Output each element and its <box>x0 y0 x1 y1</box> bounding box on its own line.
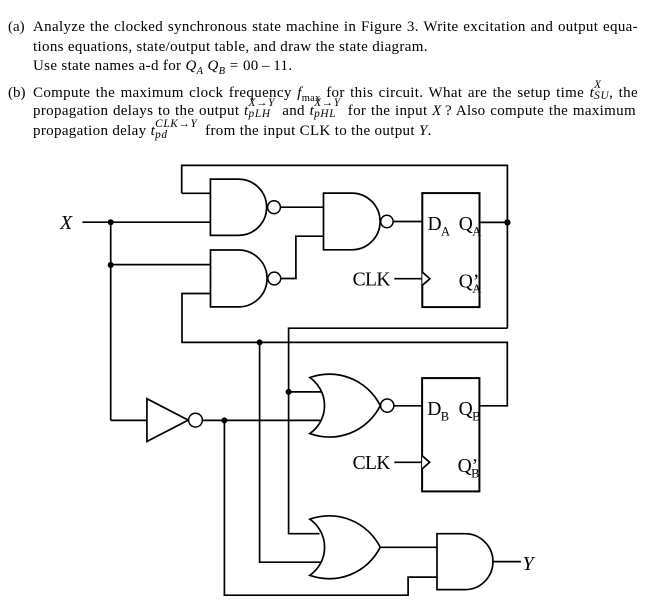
node X junction 1 <box>108 219 114 225</box>
svg-text:Q: Q <box>459 399 473 420</box>
svg-text:B: B <box>472 410 480 424</box>
wire top rail into NAND U1 top input <box>182 192 211 194</box>
nand U3 <box>324 193 381 250</box>
node inverter out junction <box>221 417 227 423</box>
svg-text:A: A <box>472 225 481 239</box>
svg-text:X: X <box>59 212 73 234</box>
svg-text:A: A <box>441 225 450 239</box>
wire X to NAND U1 bottom input <box>111 221 211 223</box>
node X junction 2 <box>108 262 114 268</box>
wire U3 out to DA <box>394 221 423 223</box>
wire X to inverter input <box>111 419 147 421</box>
wire inverter out to NOR bottom input <box>202 419 321 421</box>
wire junction to NOR top input <box>289 391 321 393</box>
clock triangle A <box>422 272 430 285</box>
wire QA output <box>480 221 508 223</box>
node rail2 junction <box>257 339 263 345</box>
nand U1 <box>210 179 266 235</box>
nand U1 output bubble <box>268 201 281 214</box>
nand U2 output bubble <box>268 272 281 285</box>
svg-text:CLK: CLK <box>353 270 391 291</box>
svg-text:Q: Q <box>459 214 473 235</box>
nand U2 <box>211 250 268 307</box>
wire CLK A <box>394 278 422 280</box>
svg-text:CLK: CLK <box>353 453 391 474</box>
clock triangle B <box>422 456 430 469</box>
svg-text:D: D <box>428 214 442 235</box>
svg-text:D: D <box>427 399 441 420</box>
wire rail2 junction down to OR bottom input <box>260 342 323 562</box>
node QA junction <box>504 219 510 225</box>
svg-text:B: B <box>471 467 479 481</box>
nor U5 output bubble <box>381 399 394 412</box>
paragraph (a) <box>8 19 25 36</box>
nand U3 output bubble <box>381 215 393 227</box>
wire CLK B <box>394 461 422 463</box>
and U7 <box>437 534 493 590</box>
wire X' down to bottom rail and AND bottom input <box>224 420 437 595</box>
paragraph (b) <box>8 85 26 102</box>
wire QA rail1 to NOR drop <box>289 328 508 534</box>
nor U5 <box>310 374 381 437</box>
inverter U4 <box>147 399 188 442</box>
svg-text:B: B <box>441 410 449 424</box>
inverter output bubble <box>189 413 203 427</box>
wire X to NAND U2 top input <box>111 264 211 266</box>
wire AND output <box>493 561 521 563</box>
flip-flop B box <box>422 378 479 491</box>
wire QA feedback top rail <box>182 165 508 328</box>
flip-flop A box <box>422 193 479 307</box>
wire OR out to AND top input <box>380 546 437 548</box>
node NOR top junction <box>286 389 292 395</box>
svg-text:A: A <box>472 282 481 296</box>
wire U1 out to U3 top input <box>280 206 323 208</box>
or U6 <box>310 516 380 579</box>
wire U2 out up to U3 bottom input <box>281 236 324 278</box>
wire NOR out to DB <box>393 405 422 407</box>
wire QB rail2 <box>182 294 507 406</box>
svg-text:Y: Y <box>523 553 536 575</box>
wire X lead <box>82 221 110 223</box>
wire X vertical run <box>110 222 112 420</box>
